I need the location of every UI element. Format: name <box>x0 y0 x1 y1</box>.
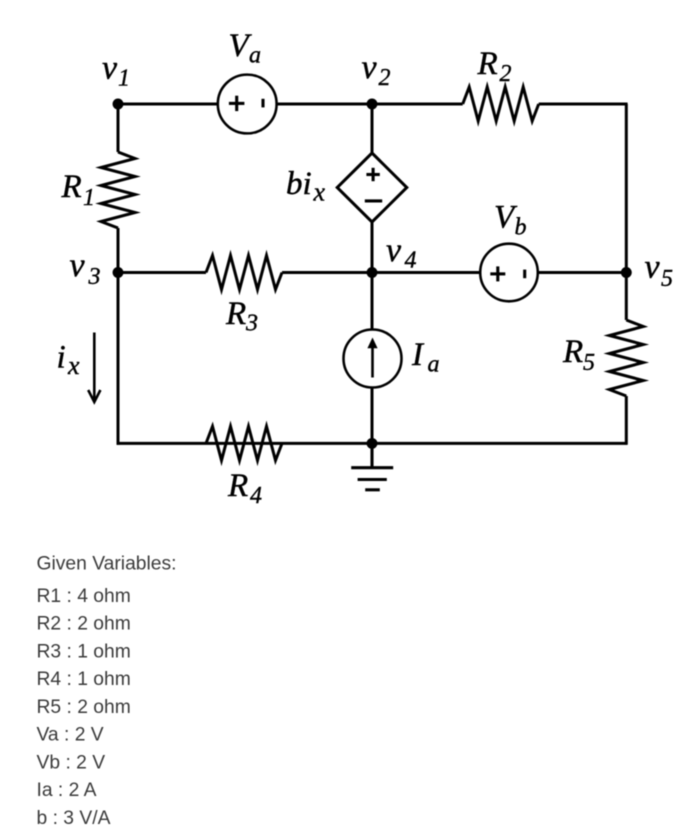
svg-text:v: v <box>102 50 118 87</box>
svg-text:3: 3 <box>88 264 101 290</box>
svg-text:bi: bi <box>286 166 312 202</box>
svg-text:v: v <box>386 232 402 269</box>
svg-text:R2 : 2 ohm: R2 : 2 ohm <box>37 614 131 635</box>
svg-text:R: R <box>227 468 248 504</box>
svg-text:5: 5 <box>583 350 595 376</box>
svg-text:R4 : 1 ohm: R4 : 1 ohm <box>37 669 131 690</box>
svg-text:1: 1 <box>83 185 95 211</box>
svg-text:R: R <box>61 169 82 205</box>
svg-text:a: a <box>249 43 261 69</box>
svg-text:Ia : 2 A: Ia : 2 A <box>37 780 97 801</box>
svg-text:Va : 2 V: Va : 2 V <box>37 725 104 746</box>
svg-text:4: 4 <box>250 483 262 509</box>
svg-text:R: R <box>477 46 498 82</box>
svg-text:Vb : 2 V: Vb : 2 V <box>37 752 106 773</box>
svg-text:b : 3 V/A: b : 3 V/A <box>37 808 111 829</box>
svg-text:Given Variables:: Given Variables: <box>37 554 177 575</box>
svg-text:3: 3 <box>245 311 258 337</box>
svg-text:v: v <box>70 247 86 284</box>
svg-text:R1 : 4 ohm: R1 : 4 ohm <box>37 586 131 607</box>
svg-text:I: I <box>411 337 425 373</box>
svg-text:v: v <box>645 249 661 286</box>
svg-text:2: 2 <box>379 65 391 91</box>
svg-text:v: v <box>362 49 378 86</box>
svg-text:i: i <box>57 340 66 376</box>
svg-text:4: 4 <box>405 248 417 274</box>
svg-text:R3 : 1 ohm: R3 : 1 ohm <box>37 641 131 662</box>
svg-text:x: x <box>313 178 326 207</box>
svg-text:R: R <box>562 334 583 370</box>
svg-text:R: R <box>225 296 246 332</box>
svg-text:b: b <box>515 215 527 241</box>
svg-text:x: x <box>67 351 80 380</box>
svg-text:a: a <box>428 351 440 377</box>
svg-text:2: 2 <box>500 61 512 87</box>
svg-text:R5 : 2 ohm: R5 : 2 ohm <box>37 697 131 718</box>
svg-text:1: 1 <box>118 66 130 92</box>
svg-text:5: 5 <box>661 266 673 292</box>
